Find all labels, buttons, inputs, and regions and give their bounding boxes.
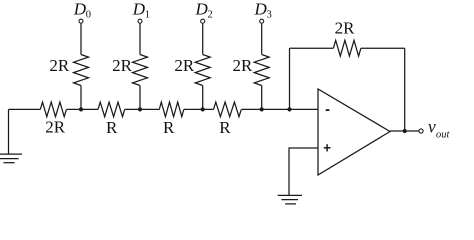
svg-text:D: D (132, 0, 146, 19)
svg-text:D: D (73, 0, 87, 19)
svg-text:3: 3 (267, 10, 272, 21)
svg-text:2: 2 (208, 10, 213, 21)
svg-text:2R: 2R (45, 117, 66, 136)
svg-text:R: R (163, 118, 175, 137)
svg-text:v: v (428, 117, 436, 137)
svg-text:R: R (106, 118, 118, 137)
svg-text:2R: 2R (174, 56, 195, 75)
svg-text:2R: 2R (112, 56, 133, 75)
svg-text:2R: 2R (233, 56, 254, 75)
svg-text:out: out (436, 129, 451, 140)
svg-text:R: R (219, 118, 231, 137)
svg-text:0: 0 (86, 10, 91, 21)
svg-text:1: 1 (145, 10, 150, 21)
svg-text:2R: 2R (49, 56, 70, 75)
svg-text:D: D (195, 0, 209, 19)
svg-text:2R: 2R (335, 18, 356, 37)
svg-text:D: D (254, 0, 268, 19)
